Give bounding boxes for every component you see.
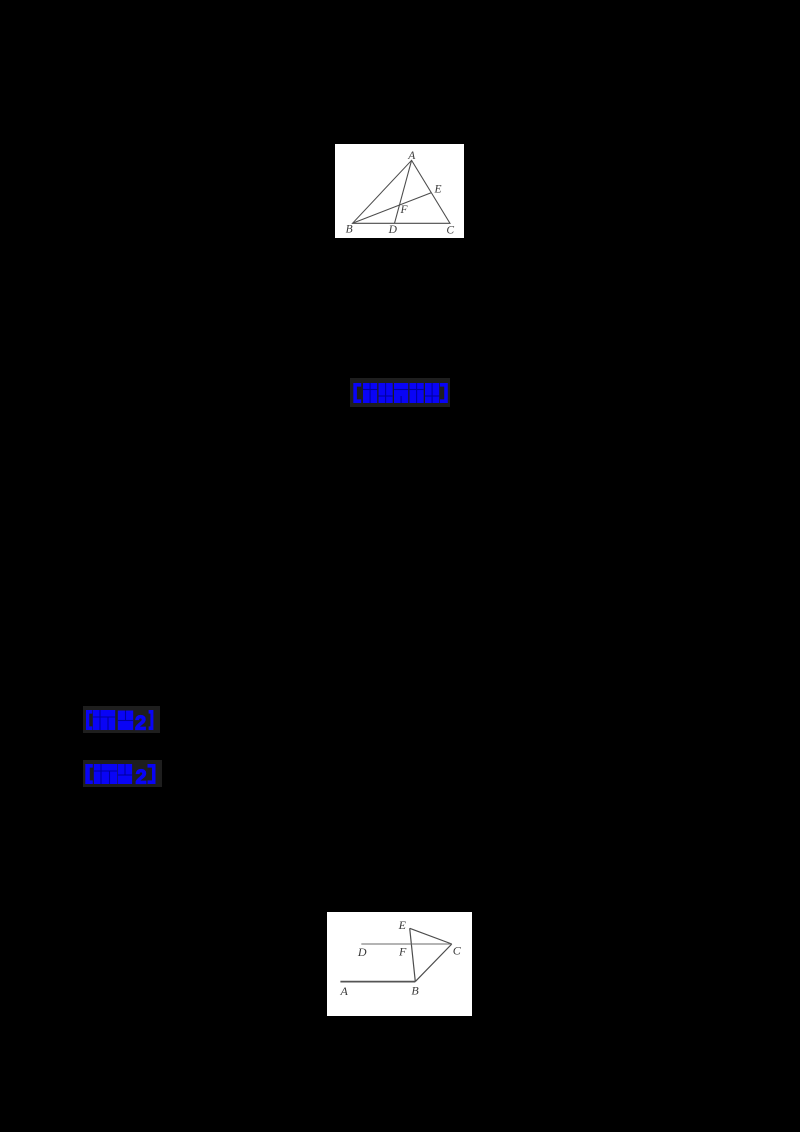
bracket open (353, 383, 361, 403)
svg-text:E: E (398, 918, 407, 932)
svg-text:2: 2 (135, 713, 146, 733)
segment CB (415, 944, 452, 982)
bracket close (440, 383, 448, 403)
char 3 (394, 383, 408, 403)
svg-text:A: A (340, 984, 349, 998)
svg-text:B: B (411, 983, 419, 997)
svg-text:F: F (398, 945, 407, 959)
blue label [kao dian 2] (84, 708, 158, 732)
svg-text:B: B (346, 223, 353, 235)
figure 2 white panel (triangle BEC, horizontal line D-F-C, segment A-B) (327, 912, 472, 1016)
svg-text:D: D (357, 945, 367, 959)
figure 1 white panel (triangle ABC with cevians AD, BE meeting at F) (335, 144, 464, 238)
char 5 (425, 383, 439, 403)
svg-text:D: D (388, 224, 398, 236)
line D to C through F (361, 943, 452, 945)
segment BE (410, 928, 416, 981)
char 1 (363, 383, 377, 403)
char 2 (379, 383, 393, 403)
svg-text:A: A (407, 150, 416, 162)
svg-text:C: C (446, 224, 454, 236)
svg-text:F: F (399, 204, 408, 216)
svg-text:2: 2 (136, 767, 147, 787)
svg-text:C: C (453, 943, 462, 957)
cevian BE (353, 193, 432, 224)
halo behind blue label 3 (83, 760, 162, 787)
char 4 (410, 383, 424, 403)
halo behind blue label 2 (83, 706, 160, 733)
triangle ABC (353, 160, 451, 223)
segment AB (340, 981, 415, 983)
svg-text:E: E (433, 184, 441, 196)
halo behind blue header (350, 378, 450, 407)
blue section header [5 CJK chars in narrow brackets] (350, 381, 451, 405)
segment EC (410, 928, 452, 944)
blue label [li ti 2] (84, 762, 160, 786)
cevian AD (395, 160, 412, 223)
